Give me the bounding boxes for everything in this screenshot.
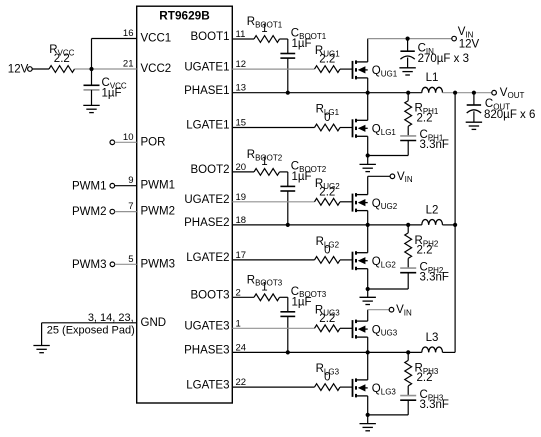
svg-text:LGATE1: LGATE1: [186, 120, 229, 132]
svg-text:1µF: 1µF: [292, 171, 312, 183]
svg-text:270µF x 3: 270µF x 3: [418, 53, 469, 65]
svg-text:PWM2: PWM2: [141, 206, 176, 218]
svg-text:L1: L1: [426, 72, 439, 84]
svg-text:16: 16: [123, 28, 134, 39]
svg-text:UGATE2: UGATE2: [184, 194, 229, 206]
svg-text:VCC2: VCC2: [141, 63, 172, 75]
svg-text:UGATE1: UGATE1: [184, 61, 229, 73]
svg-text:PWM1: PWM1: [141, 180, 176, 192]
svg-text:PWM3: PWM3: [141, 258, 176, 270]
svg-text:LGATE2: LGATE2: [186, 252, 229, 264]
svg-text:3.3nF: 3.3nF: [420, 139, 449, 151]
svg-text:BOOT3: BOOT3: [191, 290, 230, 302]
svg-text:2.2: 2.2: [319, 313, 335, 325]
svg-text:15: 15: [236, 118, 247, 129]
svg-text:3.3nF: 3.3nF: [420, 271, 449, 283]
svg-text:0: 0: [324, 112, 330, 124]
svg-text:2.2: 2.2: [417, 372, 433, 384]
svg-text:PWM2: PWM2: [72, 206, 107, 218]
svg-text:0: 0: [324, 372, 330, 384]
svg-text:24: 24: [236, 342, 247, 353]
svg-text:2.2: 2.2: [54, 53, 70, 65]
svg-text:820µF x 6: 820µF x 6: [484, 109, 535, 121]
svg-text:POR: POR: [141, 136, 166, 148]
svg-text:10: 10: [123, 132, 134, 143]
svg-text:5: 5: [128, 254, 133, 265]
svg-text:1µF: 1µF: [292, 296, 312, 308]
svg-text:1µF: 1µF: [102, 88, 122, 100]
svg-text:PWM3: PWM3: [72, 259, 107, 271]
svg-text:2.2: 2.2: [417, 245, 433, 257]
svg-text:LGATE3: LGATE3: [186, 379, 229, 391]
svg-text:7: 7: [128, 201, 133, 212]
svg-text:1: 1: [261, 23, 267, 35]
svg-text:2.2: 2.2: [319, 54, 335, 66]
svg-text:RT9629B: RT9629B: [159, 9, 210, 23]
svg-text:BOOT2: BOOT2: [191, 164, 230, 176]
svg-text:2.2: 2.2: [417, 112, 433, 124]
svg-text:UGATE3: UGATE3: [184, 321, 229, 333]
svg-text:17: 17: [236, 250, 247, 261]
svg-text:25 (Exposed Pad): 25 (Exposed Pad): [47, 324, 135, 336]
svg-text:PWM1: PWM1: [72, 180, 107, 192]
svg-text:VCC1: VCC1: [141, 33, 172, 45]
svg-text:L2: L2: [426, 204, 439, 216]
svg-text:9: 9: [128, 175, 133, 186]
svg-text:PHASE3: PHASE3: [184, 345, 229, 357]
svg-text:2: 2: [236, 287, 241, 298]
svg-text:3.3nF: 3.3nF: [420, 399, 449, 411]
svg-text:19: 19: [236, 192, 247, 203]
svg-text:1: 1: [261, 156, 267, 168]
svg-text:L3: L3: [426, 332, 439, 344]
svg-text:GND: GND: [141, 317, 167, 329]
svg-text:2.2: 2.2: [319, 186, 335, 198]
svg-text:11: 11: [236, 29, 246, 40]
svg-text:3, 14, 23,: 3, 14, 23,: [88, 312, 134, 324]
svg-text:1: 1: [236, 318, 241, 329]
svg-text:21: 21: [123, 59, 134, 70]
svg-text:PHASE2: PHASE2: [184, 217, 229, 229]
svg-text:13: 13: [236, 83, 247, 94]
svg-text:BOOT1: BOOT1: [191, 31, 230, 43]
svg-text:12V: 12V: [459, 39, 480, 51]
svg-text:22: 22: [236, 377, 247, 388]
svg-text:1µF: 1µF: [292, 38, 312, 50]
svg-text:20: 20: [236, 162, 247, 173]
svg-text:12: 12: [236, 59, 247, 70]
svg-text:PHASE1: PHASE1: [184, 85, 229, 97]
svg-text:1: 1: [261, 281, 267, 293]
svg-text:18: 18: [236, 215, 247, 226]
svg-text:0: 0: [324, 244, 330, 256]
svg-text:12V: 12V: [8, 63, 29, 75]
